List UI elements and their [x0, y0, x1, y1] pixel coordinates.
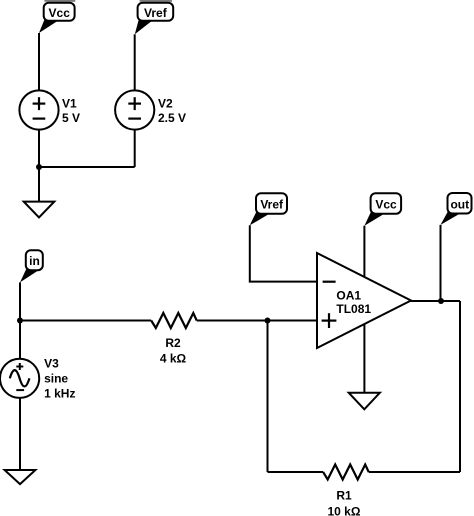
svg-text:1 kHz: 1 kHz	[44, 386, 75, 400]
wire V2 to V1 junction	[39, 166, 135, 168]
label V1 5 V	[62, 97, 80, 126]
label R2 4 kOhm	[160, 336, 187, 366]
svg-text:V1: V1	[62, 97, 77, 111]
wire op-amp V- pin to ground	[363, 324, 365, 393]
svg-text:TL081: TL081	[336, 302, 371, 316]
label R1 10 kOhm	[328, 488, 361, 516]
svg-text:Vcc: Vcc	[49, 6, 71, 20]
wire Vref flag to - input	[250, 225, 317, 281]
wire Vcc flag to op-amp V+ pin	[363, 226, 365, 279]
svg-text:Vcc: Vcc	[375, 198, 397, 212]
ground (below V3)	[5, 470, 36, 484]
wire Vref flag to V2	[134, 34, 136, 90]
cropped element remnant above Vcc flag	[44, 0, 75, 2]
wire R2 to op-amp + input	[197, 320, 317, 322]
cropped element remnant above Vref flag	[140, 0, 172, 2]
svg-text:Vref: Vref	[144, 6, 168, 20]
label V3 sine 1 kHz	[44, 356, 75, 400]
svg-text:OA1: OA1	[336, 288, 361, 302]
flag out (net out)	[441, 193, 472, 225]
wire V3 bottom to ground	[19, 398, 21, 471]
wire feedback bottom left segment	[268, 471, 324, 473]
wire in flag down to node	[19, 282, 21, 359]
wire V2 bottom down	[134, 130, 136, 168]
svg-text:V3: V3	[44, 356, 59, 370]
resistor R1	[323, 465, 369, 480]
svg-text:5 V: 5 V	[62, 111, 80, 125]
flag Vref (net Vref, top)	[135, 3, 173, 35]
svg-text:Vref: Vref	[260, 198, 284, 212]
ground (below V1)	[24, 202, 55, 218]
resistor R2	[151, 313, 197, 328]
junction V1/V2	[36, 164, 42, 170]
svg-text:10 kΩ: 10 kΩ	[328, 505, 361, 516]
svg-text:out: out	[450, 197, 469, 211]
flag Vcc (op-amp supply)	[364, 193, 401, 226]
ground (below op-amp)	[349, 393, 380, 410]
svg-text:2.5 V: 2.5 V	[158, 111, 186, 125]
svg-text:in: in	[29, 254, 40, 268]
junction + input / feedback	[265, 318, 271, 324]
wire Vcc flag to V1	[38, 33, 40, 91]
flag Vref (op-amp - input)	[250, 193, 287, 225]
svg-text:R2: R2	[165, 336, 181, 350]
sine source V3	[0, 359, 39, 398]
wire out flag down to output node	[440, 225, 442, 301]
wire node in to R2	[20, 320, 151, 322]
label V2 2.5 V	[158, 97, 186, 126]
svg-text:R1: R1	[336, 488, 352, 502]
svg-text:V2: V2	[158, 97, 173, 111]
wire feedback right vertical	[459, 301, 461, 472]
voltage source V2	[115, 90, 154, 129]
svg-text:4 kΩ: 4 kΩ	[160, 352, 187, 366]
junction in node	[17, 318, 23, 324]
flag in (net in)	[20, 250, 43, 282]
wire op-amp output	[410, 300, 460, 302]
voltage source V1	[19, 90, 58, 129]
wire V1 bottom to ground	[38, 130, 40, 202]
flag Vcc (net Vcc, top)	[39, 3, 75, 33]
wire feedback bottom right segment	[369, 471, 460, 473]
op-amp OA1 TL081	[317, 253, 411, 348]
junction output node	[438, 298, 444, 304]
wire feedback left vertical	[267, 321, 269, 473]
svg-text:sine: sine	[44, 371, 68, 385]
